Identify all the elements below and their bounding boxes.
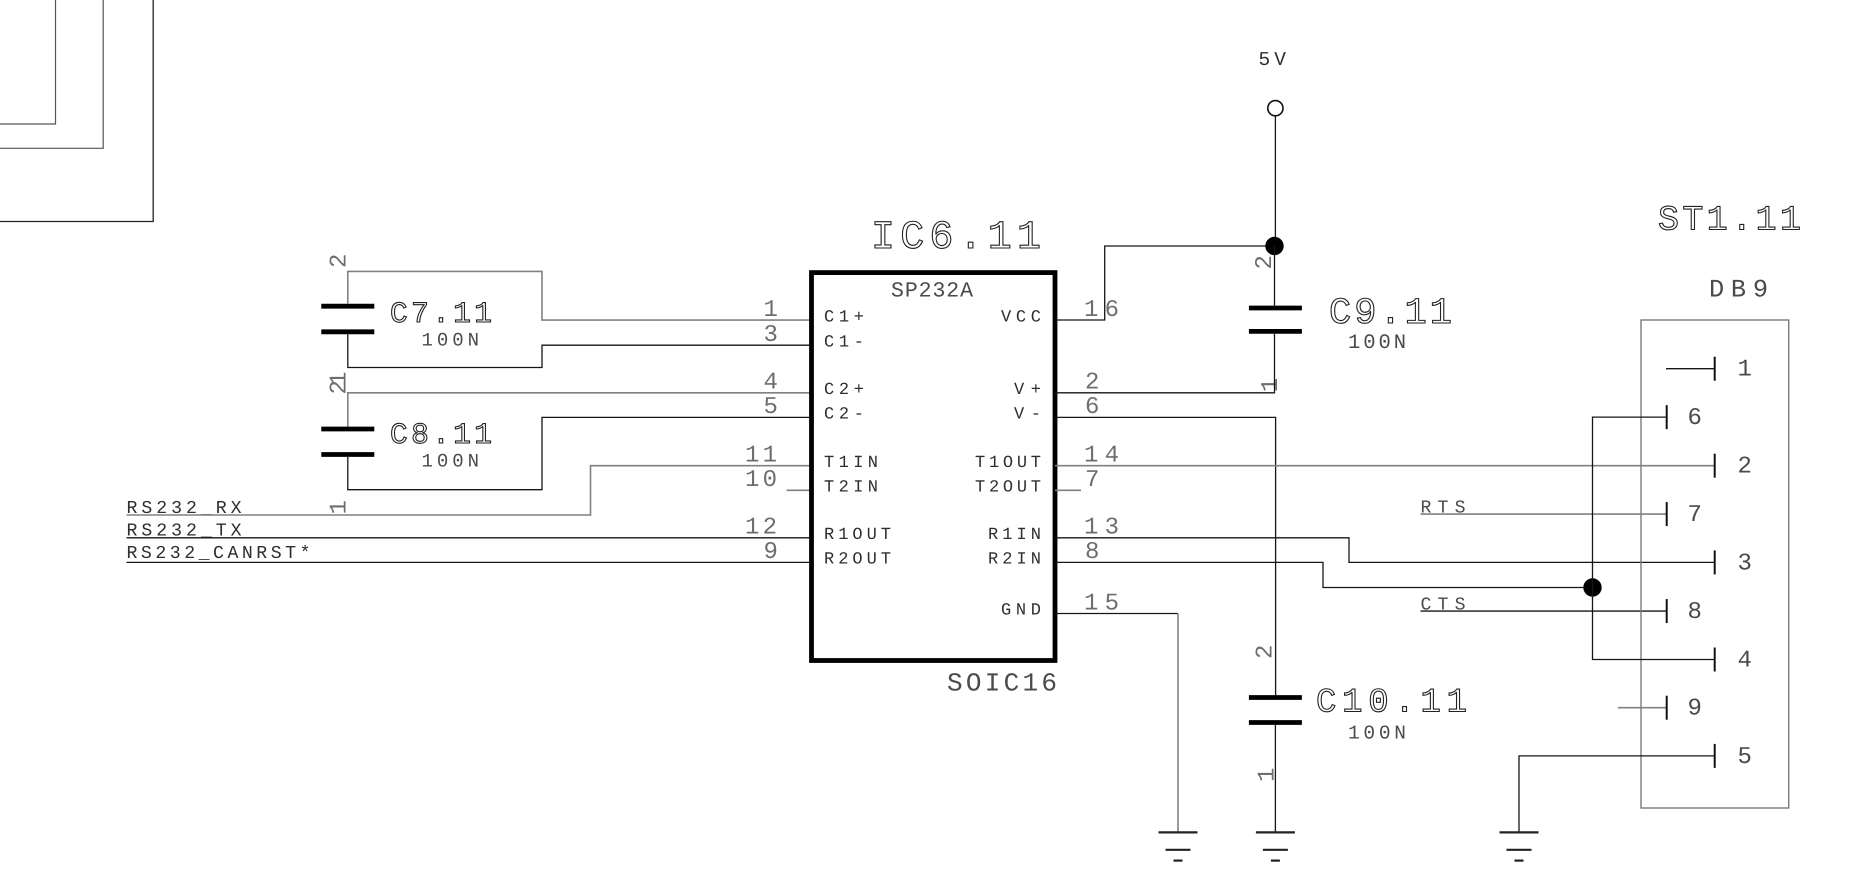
svg-text:C9.11: C9.11 [1329,293,1452,335]
net RS232_RX label [127,499,242,519]
svg-text:R2OUT: R2OUT [824,551,891,570]
label ST1.11 [1658,200,1801,240]
svg-text:9: 9 [764,539,778,566]
DB9 pin 3 [1715,550,1752,577]
label DB9 [1709,276,1768,305]
svg-text:C8.11: C8.11 [390,418,492,452]
svg-text:1: 1 [1738,357,1752,384]
wire RS232_RX to T1IN [127,466,812,515]
pin number 8 [1085,539,1099,566]
DB9 pin 7 [1667,502,1702,529]
wire RTS to DB9 pin7 [1421,513,1667,515]
net RS232_TX label [127,521,242,541]
wire C7 pin1 to C1- [348,334,812,367]
pin name VCC [1001,308,1041,327]
pin number 12 [745,515,777,542]
pin number 16 [1084,297,1119,324]
sheet frame corner outer [0,0,153,222]
svg-text:2: 2 [1253,645,1280,659]
DB9 pin 2 [1715,454,1752,481]
pin number 1 (C7) [327,372,354,386]
pin number 3 [764,322,778,349]
wire C10 pin1 to ground [1274,725,1276,833]
wire C9 pin2 [1274,246,1276,306]
pin name GND [1001,602,1041,621]
svg-text:C10.11: C10.11 [1316,684,1467,722]
wire C8 pin2 to C2+ [348,393,812,427]
wire R1IN to DB9 pin3 [1055,538,1715,563]
pin number 2 (C8) [327,380,354,394]
pin name V+ [1014,381,1041,400]
junction node VCC/5V [1265,237,1283,255]
wire T2OUT stub [1055,489,1081,491]
svg-text:100N: 100N [1348,332,1406,355]
pin number 2 (C9) [1252,255,1279,269]
pin number 1 (C9) [1258,378,1285,392]
svg-text:T1OUT: T1OUT [975,454,1041,473]
label C10.11 [1316,684,1467,722]
net RTS label [1421,498,1466,518]
ground (IC GND) [1159,832,1198,860]
svg-text:R1IN: R1IN [988,526,1041,545]
pin number 14 [1084,443,1119,470]
label C9.11 [1329,293,1452,335]
svg-text:3: 3 [1738,550,1752,577]
value 100N (C9) [1348,332,1406,355]
pin number 15 [1084,590,1119,617]
pin number 1 (C10) [1255,768,1282,782]
capacitor C10 [1249,698,1302,723]
pin name R2IN [988,551,1041,570]
svg-text:5: 5 [1738,744,1752,771]
svg-text:RS232_CANRST*: RS232_CANRST* [127,544,311,564]
svg-text:C1-: C1- [824,333,864,352]
svg-text:4: 4 [764,370,778,397]
pin name R1OUT [824,526,891,545]
pin number 4 [764,370,778,397]
pin number 1 (C8) [327,500,354,514]
svg-text:100N: 100N [1348,723,1406,745]
pin number 5 [764,394,778,421]
wire CTS to DB9 pin8 [1421,610,1667,612]
wire R2IN to junction [1055,562,1593,587]
svg-text:10: 10 [745,467,777,494]
pin number 9 [764,539,778,566]
svg-text:1: 1 [1258,378,1285,392]
pin name T1OUT [975,454,1041,473]
label C7.11 [390,297,492,331]
ground (C10) [1256,832,1295,860]
wire T2IN stub [787,489,812,491]
pin number 2 [1085,370,1099,397]
DB9 pin 9 [1618,696,1702,723]
wire C8 pin1 to C2- [348,417,812,489]
svg-text:4: 4 [1738,648,1752,675]
svg-text:RS232_RX: RS232_RX [127,499,242,519]
net CTS label [1421,595,1466,615]
svg-text:1: 1 [1255,768,1282,782]
power 5V symbol [1259,49,1287,116]
pin name R1IN [988,526,1041,545]
part name SP232A [891,280,973,304]
wire VCC to junction [1055,246,1275,320]
svg-text:R2IN: R2IN [988,551,1041,570]
svg-text:7: 7 [1688,502,1702,529]
pin number 10 [745,467,777,494]
DB9 pin 6 [1667,405,1702,432]
svg-text:V+: V+ [1014,381,1041,400]
svg-text:ST1.11: ST1.11 [1658,200,1801,240]
svg-text:T2IN: T2IN [824,479,878,498]
wire RS232_TX to R1OUT [127,537,812,539]
svg-text:100N: 100N [422,450,480,472]
svg-text:5: 5 [764,394,778,421]
svg-text:C1+: C1+ [824,308,864,327]
wire V- to C10 [1055,417,1276,695]
DB9 pin 8 [1667,599,1702,626]
value 100N (C8) [422,450,480,472]
pin name T2OUT [975,479,1041,498]
wire RS232_CANRST* to R2OUT [127,561,812,563]
svg-text:CTS: CTS [1421,595,1466,615]
DB9 pin 5 wire to ground [1519,756,1715,833]
capacitor C7 [321,306,374,332]
junction node R2IN/DB9 [1583,578,1601,596]
svg-text:8: 8 [1688,599,1702,626]
svg-text:IC6.11: IC6.11 [871,216,1041,261]
svg-text:DB9: DB9 [1709,276,1768,305]
wire 5V to junction [1274,116,1276,246]
wire T1OUT to DB9 pin2 [1055,465,1715,467]
svg-text:T1IN: T1IN [824,454,878,473]
value 100N (C7) [422,330,480,352]
svg-text:T2OUT: T2OUT [975,479,1041,498]
sheet frame corner middle [0,0,103,148]
footprint SOIC16 [947,668,1057,698]
svg-text:2: 2 [1738,454,1752,481]
DB9 pin 4 [1715,648,1752,675]
svg-text:9: 9 [1688,696,1702,723]
DB9 pin 5 [1715,744,1752,771]
svg-text:SP232A: SP232A [891,280,973,304]
pin name C1- [824,333,864,352]
ground (DB9 pin5) [1500,832,1539,860]
svg-text:100N: 100N [422,330,480,352]
svg-text:C2+: C2+ [824,381,864,400]
label IC6.11 [871,216,1041,261]
wire GND pin15 to ground [1055,614,1178,833]
svg-text:1: 1 [764,297,778,324]
svg-text:C7.11: C7.11 [390,297,492,331]
pin name C2+ [824,381,864,400]
label C8.11 [390,418,492,452]
pin number 2 (C10) [1253,645,1280,659]
pin name T1IN [824,454,878,473]
svg-text:C2-: C2- [824,406,864,425]
svg-text:SOIC16: SOIC16 [947,668,1057,698]
connector ST1 outline DB9 [1641,320,1789,808]
svg-text:R1OUT: R1OUT [824,526,891,545]
svg-text:3: 3 [764,322,778,349]
svg-text:2: 2 [327,254,354,268]
op-amp transceiver IC6 outline [812,273,1056,661]
pin name T2IN [824,479,878,498]
pin number 7 [1085,467,1099,494]
pin number 1 [764,297,778,324]
sheet frame corner inner [0,0,56,124]
pin number 2 (C7) [327,254,354,268]
pin number 6 [1085,394,1099,421]
capacitor C9 [1249,308,1302,331]
svg-text:6: 6 [1688,405,1702,432]
pin number 13 [1084,515,1119,542]
value 100N (C10) [1348,723,1406,745]
svg-text:1: 1 [327,500,354,514]
svg-text:5V: 5V [1259,49,1287,71]
pin name R2OUT [824,551,891,570]
svg-text:VCC: VCC [1001,308,1041,327]
svg-text:7: 7 [1085,467,1099,494]
wire C7 pin2 to C1+ [348,271,812,320]
svg-text:V-: V- [1014,406,1041,425]
wire C9 pin1 to V+ [1055,334,1275,393]
DB9 pin 1 [1666,357,1752,384]
capacitor C8 [321,429,374,455]
net RS232_CANRST* label [127,544,311,564]
svg-text:RTS: RTS [1421,498,1466,518]
pin number 11 [745,443,777,470]
pin name V- [1014,406,1041,425]
svg-text:GND: GND [1001,602,1041,621]
DB9 pin 6 wire to pin 4 [1593,417,1715,659]
pin name C1+ [824,308,864,327]
pin name C2- [824,406,864,425]
